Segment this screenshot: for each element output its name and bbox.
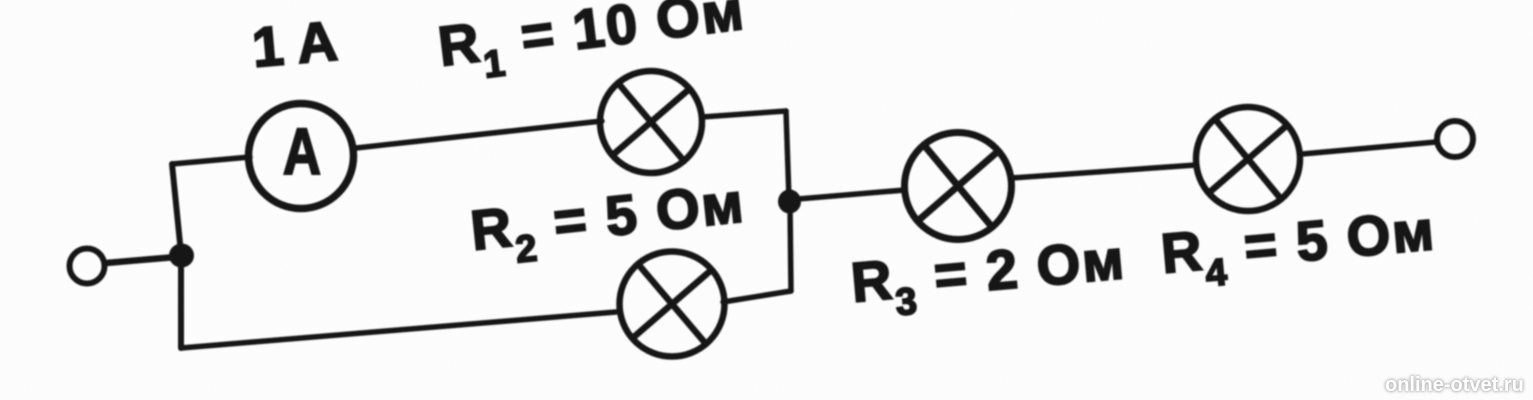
node J2 (right junction) <box>778 190 801 214</box>
wire J2 to lamp R3 <box>798 190 905 199</box>
wire right vertical upper <box>786 111 789 199</box>
watermark online-otvet.ru <box>1385 374 1524 397</box>
ammeter A (U1) <box>249 104 354 209</box>
wire R4 to terminal T2 <box>1302 142 1436 154</box>
label R3 = 2 Ом <box>849 227 1130 328</box>
wire R1 to top-right corner <box>702 111 786 117</box>
terminal T2 (right output) <box>1437 121 1473 157</box>
wire T1 to node J1 <box>106 257 176 263</box>
label R2 = 5 Ом <box>468 171 750 276</box>
wire ammeter to lamp R1 <box>356 121 602 148</box>
node J1 (left junction) <box>169 244 194 268</box>
wire bottom-left vertical <box>178 257 184 348</box>
wire top-left corner to ammeter <box>172 157 250 164</box>
wire bottom branch <box>181 312 616 348</box>
wire bottom-right corner to lamp R2 <box>723 291 791 302</box>
label A inside ammeter <box>283 114 321 188</box>
svg-text:1 A: 1 A <box>250 9 340 79</box>
wire right vertical lower <box>790 204 791 291</box>
terminal T1 (left input) <box>70 249 105 284</box>
lamp R1 <box>600 71 702 173</box>
label 1 A (ammeter reading) <box>250 9 340 79</box>
label R1 = 10 Ом <box>435 0 750 92</box>
wire J1 up to top-left corner <box>172 164 181 253</box>
lamp R2 <box>620 252 725 357</box>
svg-text:A: A <box>283 114 321 188</box>
lamp R3 <box>905 133 1012 240</box>
label R4 = 5 Ом <box>1159 198 1440 299</box>
lamp R4 <box>1196 107 1300 211</box>
wire R3 to lamp R4 <box>1011 165 1196 178</box>
